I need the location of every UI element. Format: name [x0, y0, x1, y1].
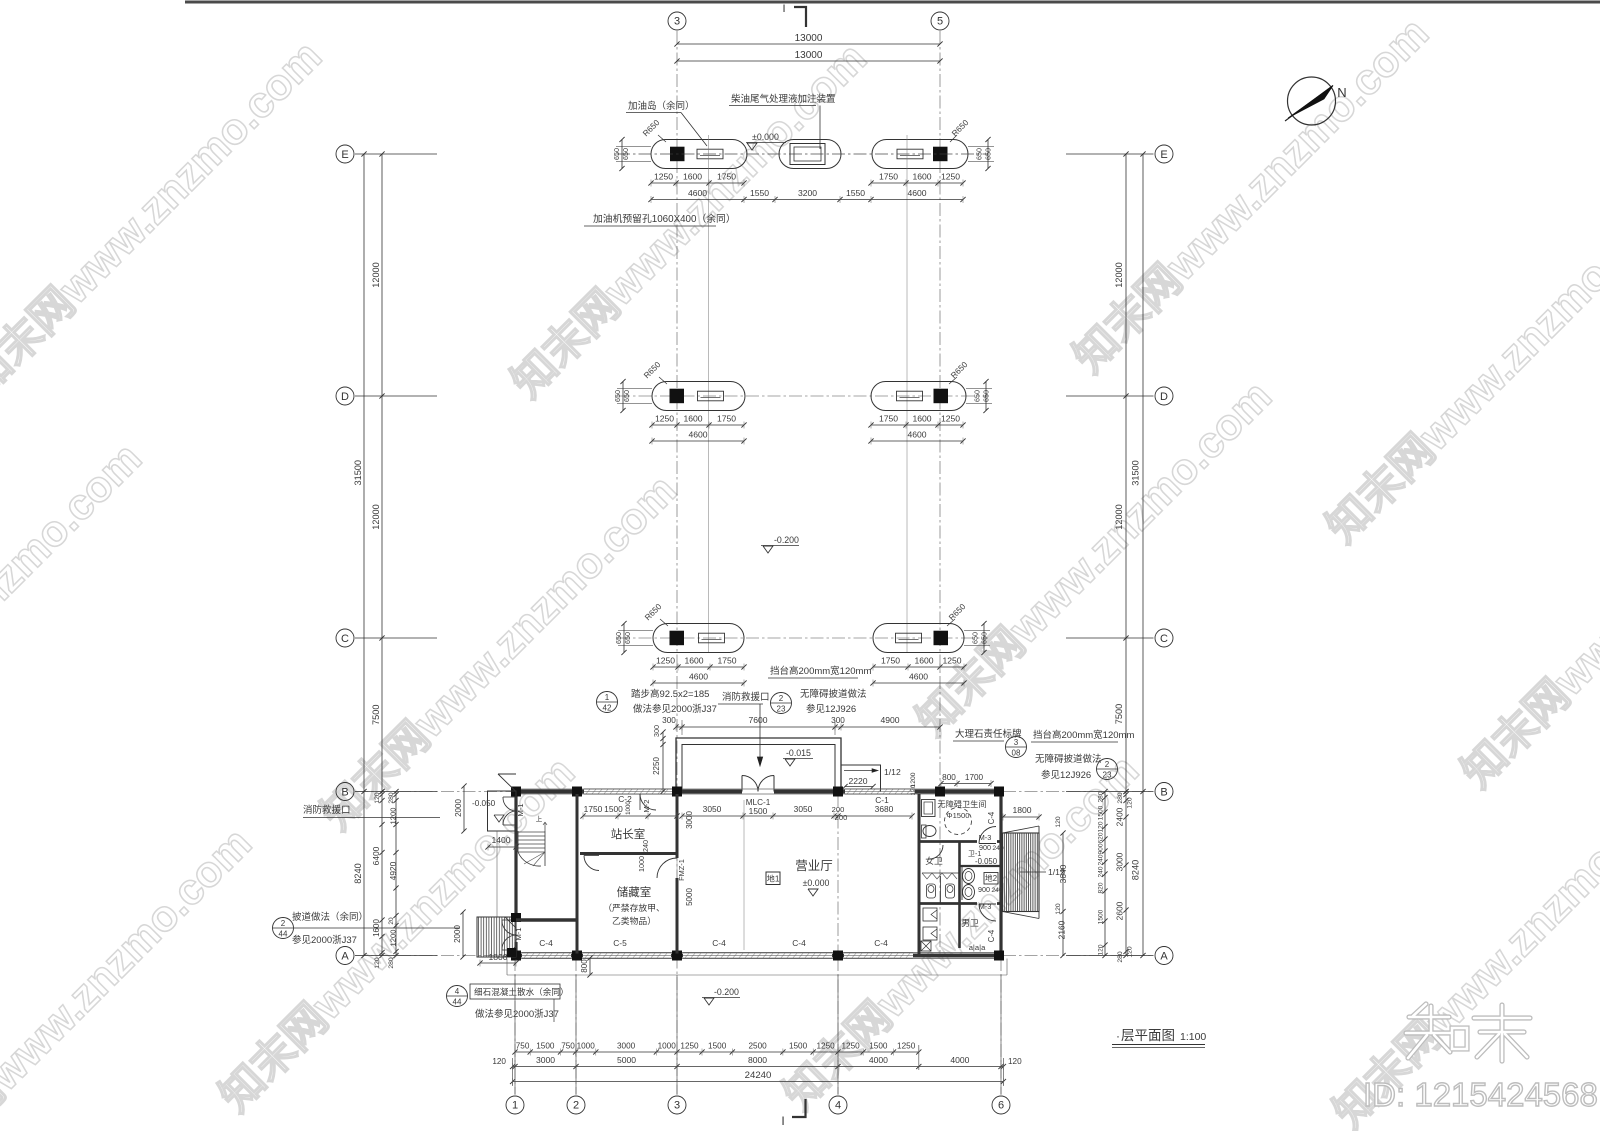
svg-text:3000: 3000 — [536, 1055, 555, 1065]
svg-text:无障碍卫生间: 无障碍卫生间 — [937, 799, 986, 809]
svg-text:R650: R650 — [950, 118, 971, 139]
svg-text:参见2000浙J37: 参见2000浙J37 — [292, 934, 357, 946]
svg-text:12000: 12000 — [371, 262, 381, 288]
svg-text:3050: 3050 — [794, 804, 813, 814]
svg-text:-0.050: -0.050 — [975, 857, 998, 866]
svg-text:M-3: M-3 — [979, 902, 992, 911]
svg-text:5: 5 — [937, 16, 943, 28]
svg-text:23: 23 — [1103, 771, 1112, 780]
svg-text:1250: 1250 — [897, 1042, 916, 1051]
svg-text:3: 3 — [674, 1100, 680, 1112]
svg-text:1250: 1250 — [941, 172, 960, 182]
svg-text:1750: 1750 — [717, 414, 736, 424]
svg-text:挡台高200mm宽120mm: 挡台高200mm宽120mm — [770, 665, 871, 677]
svg-text:1600: 1600 — [912, 414, 931, 424]
svg-text:2160: 2160 — [1057, 920, 1067, 939]
svg-text:C-4: C-4 — [987, 811, 996, 824]
svg-text:1500: 1500 — [604, 804, 623, 814]
svg-text:女卫: 女卫 — [925, 855, 943, 866]
svg-text:乙类物品）: 乙类物品） — [612, 915, 656, 926]
svg-text:280: 280 — [1098, 791, 1105, 802]
svg-text:C: C — [1160, 633, 1168, 645]
svg-text:12000: 12000 — [1114, 504, 1124, 530]
svg-text:踏步高92.5x2=185: 踏步高92.5x2=185 — [631, 688, 709, 700]
svg-text:知末网www.znzmo.com: 知末网www.znzmo.com — [1318, 179, 1600, 552]
svg-text:A: A — [1160, 951, 1168, 963]
svg-text:3: 3 — [674, 16, 680, 28]
svg-text:R650: R650 — [947, 602, 968, 623]
svg-text:1750: 1750 — [717, 172, 736, 182]
svg-text:加油岛（余同）: 加油岛（余同） — [628, 100, 695, 112]
svg-text:1750: 1750 — [881, 656, 900, 666]
svg-text:1: 1 — [512, 1100, 518, 1112]
svg-text:1000: 1000 — [577, 1042, 596, 1051]
svg-text:4000: 4000 — [950, 1055, 969, 1065]
svg-text:8240: 8240 — [1131, 860, 1141, 880]
svg-text:加油机预留孔1060X400（余同）: 加油机预留孔1060X400（余同） — [593, 212, 736, 225]
svg-text:1800: 1800 — [1012, 805, 1031, 815]
svg-text:13000: 13000 — [795, 33, 823, 44]
svg-text:1750: 1750 — [879, 414, 898, 424]
svg-text:3680: 3680 — [875, 804, 894, 814]
svg-text:柴油尾气处理液加注装置: 柴油尾气处理液加注装置 — [731, 93, 836, 105]
svg-text:7500: 7500 — [1114, 704, 1124, 724]
svg-text:储藏室: 储藏室 — [617, 885, 652, 899]
svg-text:6400: 6400 — [371, 846, 381, 865]
svg-text:1600: 1600 — [683, 414, 702, 424]
svg-text:240: 240 — [991, 887, 1003, 894]
svg-text:1250: 1250 — [655, 414, 674, 424]
svg-text:2: 2 — [573, 1100, 579, 1112]
svg-text:750: 750 — [516, 1042, 530, 1051]
svg-text:地2: 地2 — [985, 873, 997, 883]
svg-text:C-4: C-4 — [874, 938, 888, 948]
svg-text:E: E — [1160, 149, 1167, 161]
svg-text:知末网www.znzmo.com: 知末网www.znzmo.com — [1453, 424, 1600, 797]
svg-text:300: 300 — [662, 716, 676, 725]
svg-text:M-3: M-3 — [979, 833, 992, 842]
svg-text:知末网www.znzmo.com: 知末网www.znzmo.com — [0, 434, 151, 807]
svg-text:2250: 2250 — [652, 757, 661, 775]
svg-text:650: 650 — [971, 632, 980, 644]
svg-text:4600: 4600 — [909, 672, 928, 682]
svg-text:280: 280 — [1117, 951, 1124, 963]
svg-text:650: 650 — [623, 632, 632, 644]
svg-text:1500: 1500 — [1098, 805, 1105, 820]
svg-text:1500: 1500 — [789, 1042, 808, 1051]
svg-text:a|a|a: a|a|a — [969, 943, 986, 952]
svg-text:1250: 1250 — [816, 1042, 835, 1051]
svg-text:650: 650 — [975, 148, 984, 160]
svg-text:20: 20 — [388, 917, 395, 925]
svg-text:4900: 4900 — [880, 715, 899, 725]
svg-text:120: 120 — [1127, 946, 1134, 958]
svg-text:1550: 1550 — [750, 188, 769, 198]
svg-text:知末网www.znzmo.com: 知末网www.znzmo.com — [908, 372, 1281, 745]
svg-text:无障碍披道做法: 无障碍披道做法 — [1035, 753, 1102, 765]
svg-text:240: 240 — [1098, 854, 1105, 865]
svg-text:2: 2 — [281, 919, 286, 928]
svg-text:1250: 1250 — [680, 1042, 699, 1051]
svg-text:R650: R650 — [949, 360, 970, 381]
svg-text:08: 08 — [1012, 749, 1021, 758]
svg-text:M-2: M-2 — [642, 799, 651, 812]
svg-text:M-1: M-1 — [514, 927, 523, 940]
svg-text:-0.200: -0.200 — [774, 535, 799, 545]
svg-text:1600: 1600 — [684, 656, 703, 666]
svg-text:营业厅: 营业厅 — [795, 859, 833, 873]
svg-text:E: E — [341, 149, 348, 161]
svg-text:参见12J926: 参见12J926 — [1041, 769, 1091, 781]
svg-text:120: 120 — [1127, 797, 1134, 809]
svg-text:280: 280 — [1117, 792, 1124, 804]
svg-text:1550: 1550 — [846, 188, 865, 198]
svg-text:D: D — [1160, 391, 1168, 403]
svg-text:消防救援口: 消防救援口 — [722, 691, 770, 703]
svg-text:知末网www.znzmo.com: 知末网www.znzmo.com — [211, 748, 584, 1121]
svg-text:1250: 1250 — [656, 656, 675, 666]
svg-text:31500: 31500 — [353, 460, 363, 486]
svg-text:280: 280 — [388, 792, 395, 804]
svg-text:300: 300 — [831, 716, 845, 725]
svg-text:4600: 4600 — [688, 430, 707, 440]
svg-text:120: 120 — [492, 1057, 506, 1066]
svg-text:5000: 5000 — [617, 1055, 636, 1065]
svg-text:FMZ-1: FMZ-1 — [677, 859, 686, 881]
svg-text:A: A — [341, 951, 349, 963]
svg-text:650: 650 — [984, 148, 993, 160]
svg-text:3000: 3000 — [1115, 852, 1125, 871]
svg-text:650: 650 — [622, 390, 631, 402]
svg-text:4600: 4600 — [907, 430, 926, 440]
svg-text:2600: 2600 — [1115, 901, 1125, 920]
svg-text:C-4: C-4 — [792, 938, 806, 948]
svg-text:120: 120 — [374, 957, 381, 969]
svg-text:I: I — [781, 1114, 784, 1128]
svg-text:23: 23 — [777, 705, 786, 714]
svg-text:知末网www.znzmo.com: 知末网www.znzmo.com — [313, 466, 686, 839]
svg-text:1200: 1200 — [389, 808, 398, 825]
svg-text:12000: 12000 — [1114, 262, 1124, 288]
svg-text:1200: 1200 — [389, 930, 398, 947]
svg-text:1500: 1500 — [749, 806, 768, 816]
svg-text:240: 240 — [641, 840, 650, 852]
svg-text:细石混凝土散水（余同）: 细石混凝土散水（余同） — [474, 986, 569, 997]
svg-text:1000: 1000 — [625, 801, 632, 815]
svg-text:31500: 31500 — [1131, 460, 1141, 486]
svg-text:N: N — [1337, 85, 1346, 100]
svg-text:1500: 1500 — [869, 1042, 888, 1051]
svg-text:-0.015: -0.015 — [786, 748, 811, 758]
svg-text:做法参见2000浙J37: 做法参见2000浙J37 — [633, 703, 717, 715]
svg-text:Φ1500: Φ1500 — [947, 811, 970, 820]
svg-text:1500: 1500 — [1098, 909, 1105, 924]
svg-text:2000: 2000 — [453, 925, 462, 943]
svg-text:1: 1 — [605, 693, 610, 702]
svg-text:4600: 4600 — [907, 188, 926, 198]
svg-text:1600: 1600 — [683, 172, 702, 182]
svg-text:650: 650 — [612, 148, 621, 160]
svg-text:消防救援口: 消防救援口 — [303, 804, 351, 816]
svg-text:上: 上 — [536, 814, 543, 823]
svg-text:4: 4 — [835, 1100, 841, 1112]
svg-text:120: 120 — [1055, 903, 1062, 915]
svg-text:M-1: M-1 — [516, 803, 525, 816]
svg-text:ID: 1215424568: ID: 1215424568 — [1363, 1076, 1598, 1113]
svg-text:1000: 1000 — [637, 856, 646, 872]
svg-text:120: 120 — [1098, 821, 1105, 832]
svg-text:4600: 4600 — [688, 188, 707, 198]
svg-text:B: B — [341, 787, 348, 799]
svg-text:层平面图: 层平面图 — [1121, 1028, 1175, 1043]
svg-text:知末网www.znzmo.com: 知末网www.znzmo.com — [0, 32, 331, 405]
svg-text:披道做法（余同）: 披道做法（余同） — [292, 911, 368, 923]
svg-text:3000: 3000 — [617, 1042, 636, 1051]
svg-text:1/12: 1/12 — [884, 767, 901, 777]
svg-text:800: 800 — [580, 959, 589, 973]
svg-text:650: 650 — [613, 390, 622, 402]
svg-text:5000: 5000 — [685, 888, 694, 906]
svg-text:C-4: C-4 — [539, 938, 553, 948]
svg-text:120: 120 — [1098, 944, 1105, 955]
svg-text:24240: 24240 — [745, 1070, 772, 1081]
svg-text:800: 800 — [942, 773, 956, 782]
svg-text:1:100: 1:100 — [1180, 1031, 1206, 1043]
svg-text:120: 120 — [1008, 1057, 1022, 1066]
svg-text:2: 2 — [779, 694, 784, 703]
svg-text:44: 44 — [279, 930, 288, 939]
svg-text:240: 240 — [1098, 866, 1105, 877]
svg-text:4600: 4600 — [689, 672, 708, 682]
svg-text:6: 6 — [998, 1100, 1004, 1112]
svg-text:620: 620 — [1098, 832, 1105, 843]
svg-text:C-5: C-5 — [613, 938, 627, 948]
svg-text:42: 42 — [603, 704, 612, 713]
svg-text:650: 650 — [982, 390, 991, 402]
svg-text:2220: 2220 — [848, 776, 867, 786]
svg-text:280: 280 — [388, 957, 395, 969]
svg-text:13000: 13000 — [795, 50, 823, 61]
svg-text:地1: 地1 — [767, 874, 780, 884]
svg-text:2000: 2000 — [454, 799, 463, 817]
svg-text:650: 650 — [973, 390, 982, 402]
svg-text:2: 2 — [1105, 760, 1110, 769]
svg-text:820: 820 — [1098, 882, 1105, 893]
svg-text:3200: 3200 — [798, 188, 817, 198]
svg-text:3: 3 — [1014, 738, 1019, 747]
svg-text:1600: 1600 — [912, 172, 931, 182]
svg-text:参见12J926: 参见12J926 — [806, 703, 856, 715]
svg-text:1750: 1750 — [584, 804, 603, 814]
svg-text:120: 120 — [374, 792, 381, 804]
svg-text:120: 120 — [1055, 816, 1062, 828]
svg-text:1750: 1750 — [717, 656, 736, 666]
svg-text:1250: 1250 — [841, 1042, 860, 1051]
svg-text:2500: 2500 — [748, 1042, 767, 1051]
svg-text:±0.000: ±0.000 — [752, 132, 779, 142]
svg-text:12000: 12000 — [371, 504, 381, 530]
svg-text:1250: 1250 — [942, 656, 961, 666]
svg-text:8000: 8000 — [748, 1055, 767, 1065]
svg-text:I: I — [782, 3, 785, 15]
svg-text:C-4: C-4 — [712, 938, 726, 948]
svg-text:无障碍披道做法: 无障碍披道做法 — [800, 688, 867, 700]
svg-text:1800: 1800 — [488, 952, 507, 962]
svg-text:-0.050: -0.050 — [472, 799, 496, 808]
svg-text:B: B — [1160, 787, 1167, 799]
svg-text:4000: 4000 — [869, 1055, 888, 1065]
svg-text:±0.000: ±0.000 — [803, 878, 830, 888]
svg-text:·: · — [1116, 1029, 1120, 1043]
svg-text:3050: 3050 — [703, 804, 722, 814]
svg-text:750: 750 — [561, 1042, 575, 1051]
svg-text:1/12: 1/12 — [1048, 867, 1065, 877]
svg-text:7600: 7600 — [748, 715, 767, 725]
svg-text:650: 650 — [621, 148, 630, 160]
svg-text:1700: 1700 — [965, 773, 984, 782]
svg-text:（严禁存放甲、: （严禁存放甲、 — [603, 902, 665, 913]
svg-text:做法参见2000浙J37: 做法参见2000浙J37 — [475, 1008, 559, 1020]
svg-text:1750: 1750 — [879, 172, 898, 182]
svg-text:4: 4 — [455, 987, 460, 996]
svg-text:1250: 1250 — [941, 414, 960, 424]
svg-text:男卫: 男卫 — [961, 918, 979, 928]
svg-text:1600: 1600 — [914, 656, 933, 666]
svg-text:D: D — [341, 391, 349, 403]
svg-text:650: 650 — [980, 632, 989, 644]
svg-text:知末网www.znzmo.com: 知末网www.znzmo.com — [1065, 9, 1438, 382]
svg-text:650: 650 — [614, 632, 623, 644]
svg-text:1000: 1000 — [658, 1042, 677, 1051]
svg-text:900: 900 — [978, 885, 990, 894]
svg-text:2400: 2400 — [1115, 807, 1125, 826]
svg-text:站长室: 站长室 — [611, 827, 646, 841]
svg-text:1400: 1400 — [491, 835, 510, 845]
svg-text:挡台高200mm宽120mm: 挡台高200mm宽120mm — [1033, 729, 1134, 741]
svg-text:大理石责任标牌: 大理石责任标牌 — [955, 728, 1022, 740]
svg-text:1250: 1250 — [654, 172, 673, 182]
svg-text:1500: 1500 — [536, 1042, 555, 1051]
svg-text:C-4: C-4 — [987, 929, 996, 942]
svg-text:1500: 1500 — [708, 1042, 727, 1051]
svg-text:7500: 7500 — [371, 705, 381, 725]
svg-text:900: 900 — [1098, 843, 1105, 854]
svg-text:300: 300 — [652, 725, 661, 737]
svg-text:C: C — [341, 633, 349, 645]
svg-text:-0.200: -0.200 — [714, 987, 739, 997]
svg-text:8240: 8240 — [353, 863, 363, 883]
svg-text:4920: 4920 — [388, 861, 398, 880]
svg-text:44: 44 — [453, 998, 462, 1007]
svg-text:3000: 3000 — [685, 811, 694, 829]
